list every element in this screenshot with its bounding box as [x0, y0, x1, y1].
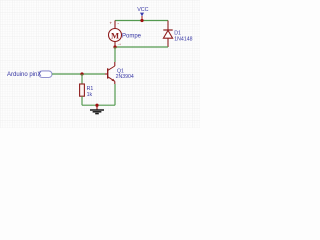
svg-text:2N3904: 2N3904 — [116, 74, 134, 80]
svg-text:1N4148: 1N4148 — [174, 37, 192, 43]
wire emitter drop — [114, 84, 116, 105]
junction at VCC tap — [140, 19, 143, 22]
power VCC — [137, 7, 148, 20]
svg-text:-+: -+ — [118, 42, 121, 46]
svg-text:VCC: VCC — [137, 7, 148, 13]
wire resistor bottom — [81, 96, 83, 105]
wire collector drop — [114, 47, 116, 62]
svg-text:1k: 1k — [87, 92, 93, 98]
svg-text:Arduino pinX: Arduino pinX — [7, 72, 41, 78]
junction motor-bottom / collector — [113, 45, 116, 48]
motor M (Pompe) — [109, 20, 142, 47]
junction ground tap — [95, 104, 98, 107]
wire bottom of flyback loop — [115, 46, 168, 48]
junction base / resistor tap — [80, 72, 83, 75]
wire bottom rail — [82, 104, 115, 106]
wire resistor top — [81, 74, 83, 84]
ground — [90, 105, 104, 113]
svg-text:Pompe: Pompe — [122, 34, 142, 40]
svg-text:M: M — [111, 30, 119, 40]
transistor Q1 2N3904 — [105, 62, 134, 84]
wire base from connector to transistor — [52, 73, 105, 75]
resistor R1 1k — [80, 84, 94, 98]
diode D1 1N4148 — [163, 21, 192, 48]
connector Arduino pinX — [7, 71, 52, 78]
wire top rail from motor top to diode top — [115, 20, 168, 22]
svg-text:+: + — [109, 22, 112, 27]
